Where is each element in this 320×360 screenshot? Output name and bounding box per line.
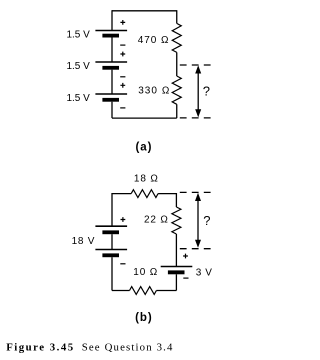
svg-text:470 Ω: 470 Ω [138, 35, 170, 46]
18V battery plus sign [121, 217, 126, 222]
wire: top-left of (b) [112, 193, 131, 195]
svg-text:(b): (b) [135, 312, 153, 324]
wire: top side (a) [112, 10, 177, 12]
resistor 330 ohm zigzag [172, 76, 181, 104]
wire: bottom-right of (b) [156, 290, 176, 292]
3V battery minus sign [183, 277, 188, 279]
battery B1 short thick plate [102, 34, 119, 38]
wire: right side below resistor 330 [176, 104, 178, 118]
wire: right side between 22 ohm and 3V battery [175, 234, 177, 267]
svg-text:330 Ω: 330 Ω [138, 86, 170, 97]
dashed node line (a) top [180, 64, 211, 66]
battery B3 plus sign [120, 83, 125, 88]
svg-text:?: ? [203, 213, 210, 228]
3V battery long plate [161, 266, 193, 268]
dashed node line (b) top [180, 191, 211, 193]
wire: right side above resistor 470 [176, 10, 178, 23]
svg-text:Figure 3.45See Question 3.4: Figure 3.45See Question 3.4 [6, 342, 173, 354]
wire between battery B2 and B3 [111, 70, 113, 94]
wire: left side below 18V battery [111, 257, 113, 290]
18V battery cell2 long plate [95, 249, 127, 251]
svg-text:1.5 V: 1.5 V [66, 93, 90, 104]
battery B2 plus sign [120, 52, 125, 57]
svg-text:1.5 V: 1.5 V [66, 29, 90, 40]
measurement arrow (b) double-headed [197, 199, 199, 242]
battery B1 plus sign [120, 20, 125, 25]
battery B3 1.5V long plate [95, 93, 127, 95]
svg-text:18 Ω: 18 Ω [134, 173, 159, 184]
svg-text:3 V: 3 V [196, 268, 213, 279]
battery B1 minus sign [120, 44, 125, 46]
wire between 18V cells [111, 234, 113, 249]
svg-text:18 V: 18 V [72, 236, 96, 247]
wire: top-right of (b) [158, 193, 176, 195]
battery B3 short thick plate [102, 98, 119, 102]
resistor 18 ohm zigzag [131, 190, 158, 198]
svg-text:?: ? [203, 83, 210, 98]
resistor 22 ohm zigzag [172, 207, 181, 234]
18V battery cell2 thick plate [102, 253, 119, 257]
wire: right side between resistors [176, 52, 178, 76]
battery B2 short thick plate [102, 66, 119, 70]
svg-text:10 Ω: 10 Ω [133, 267, 158, 278]
3V battery plus sign [183, 254, 188, 259]
battery B1 1.5V long plate [95, 30, 127, 32]
18V battery cell1 thick plate [102, 230, 119, 234]
battery B2 minus sign [120, 76, 125, 78]
wire: left side above battery B1 [111, 10, 113, 30]
dashed node line (a) bottom [180, 117, 211, 119]
wire below battery B3 [111, 102, 113, 118]
svg-text:22 Ω: 22 Ω [144, 215, 169, 226]
battery B3 minus sign [120, 107, 125, 109]
svg-text:1.5 V: 1.5 V [66, 61, 90, 72]
wire: right side above 22 ohm [175, 193, 177, 207]
wire: bottom side (a) [112, 117, 177, 119]
wire: bottom-left of (b) [112, 290, 130, 292]
battery B2 1.5V long plate [95, 61, 127, 63]
wire: left side above 18V battery [111, 193, 113, 226]
dashed node line (b) bottom [180, 248, 211, 250]
18V battery cell1 long plate [95, 225, 127, 227]
svg-text:(a): (a) [135, 141, 152, 153]
3V battery thick plate [168, 270, 185, 274]
18V battery minus sign [120, 263, 125, 265]
measurement arrow (a) double-headed [197, 72, 199, 112]
wire between battery B1 and B2 [111, 38, 113, 63]
wire: right side below 3V battery [175, 274, 177, 290]
resistor 10 ohm zigzag [130, 287, 157, 295]
resistor 470 ohm zigzag [172, 23, 181, 52]
